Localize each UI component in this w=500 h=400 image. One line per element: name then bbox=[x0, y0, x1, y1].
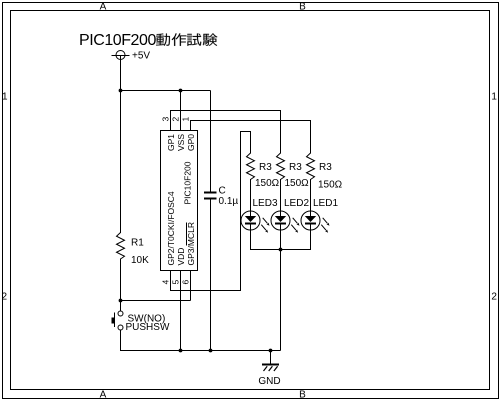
svg-text:GND: GND bbox=[258, 376, 280, 387]
wire pin1 GP0 route bbox=[191, 121, 311, 154]
wire capacitor bottom drop bbox=[210, 200, 212, 352]
svg-text:5: 5 bbox=[171, 280, 181, 285]
node junction GND/rail bbox=[269, 349, 273, 353]
wire R3-3 to LED1 bbox=[310, 179, 312, 212]
node junction VDD/rail bbox=[179, 349, 183, 353]
wire capacitor top drop bbox=[210, 91, 212, 193]
svg-text:6: 6 bbox=[181, 280, 191, 285]
svg-text:10K: 10K bbox=[131, 255, 149, 266]
wire LED common rail bbox=[251, 249, 311, 251]
resistor R1 bbox=[117, 233, 125, 260]
svg-text:2: 2 bbox=[2, 292, 8, 303]
svg-text:PIC10F200: PIC10F200 bbox=[79, 32, 156, 49]
IC U1 PIC10F200 body bbox=[161, 131, 198, 271]
wire LED3 cathode drop bbox=[250, 230, 252, 250]
LED3 diode bbox=[241, 211, 270, 233]
svg-text:A: A bbox=[100, 390, 107, 400]
wire LED1 cathode drop bbox=[310, 230, 312, 250]
svg-text:B: B bbox=[299, 390, 306, 400]
node junction LED rail bbox=[279, 248, 283, 252]
wire pin3 GP1 route bbox=[171, 111, 281, 154]
wire switch bottom bbox=[120, 330, 122, 351]
svg-text:150Ω: 150Ω bbox=[318, 180, 343, 191]
svg-text:LED2: LED2 bbox=[284, 198, 309, 209]
svg-text:R3: R3 bbox=[319, 162, 332, 173]
wire GP3 branch vertical to pin6 bbox=[190, 271, 192, 301]
wire pin4 GP2 route bbox=[171, 132, 251, 291]
svg-text:GP0: GP0 bbox=[186, 134, 196, 151]
ground GND symbol bbox=[262, 351, 279, 372]
svg-text:GP3/MCLR: GP3/MCLR bbox=[186, 222, 196, 265]
power +5V symbol bbox=[112, 51, 130, 61]
svg-text:A: A bbox=[100, 2, 107, 13]
wire +5V horizontal rail bbox=[121, 90, 211, 92]
wire rail up to LED rail bbox=[280, 250, 282, 351]
MCLR overline bbox=[186, 223, 188, 246]
resistor R3 (LED2) bbox=[277, 153, 285, 180]
wire pin2 drop bbox=[180, 91, 182, 132]
svg-text:B: B bbox=[299, 2, 306, 13]
svg-text:R1: R1 bbox=[131, 238, 144, 249]
node junction +5V/R1 bbox=[119, 89, 123, 93]
wire pin5 VDD drop bbox=[180, 271, 182, 352]
svg-text:+5V: +5V bbox=[132, 51, 150, 62]
wire ground rail bottom bbox=[121, 350, 281, 352]
svg-text:VDD: VDD bbox=[176, 248, 186, 266]
svg-text:150Ω: 150Ω bbox=[285, 178, 310, 189]
wire R1 bottom to switch bbox=[120, 259, 122, 312]
svg-text:150Ω: 150Ω bbox=[255, 178, 280, 189]
svg-text:R3: R3 bbox=[259, 162, 272, 173]
node junction R1/GP3 branch bbox=[119, 299, 123, 303]
svg-text:PIC10F200: PIC10F200 bbox=[183, 161, 193, 204]
svg-text:GP1: GP1 bbox=[166, 134, 176, 151]
svg-text:GP2/T0CKI/FOSC4: GP2/T0CKI/FOSC4 bbox=[166, 191, 176, 265]
svg-text:3: 3 bbox=[161, 117, 171, 122]
LED2 diode bbox=[271, 211, 300, 233]
svg-text:VSS: VSS bbox=[176, 134, 186, 151]
svg-text:C: C bbox=[219, 186, 226, 197]
svg-text:2: 2 bbox=[171, 117, 181, 122]
capacitor C1 bbox=[204, 193, 217, 199]
wire +5V stub down to rail bbox=[120, 60, 122, 92]
svg-text:1: 1 bbox=[181, 117, 191, 122]
LED1 diode bbox=[301, 211, 330, 233]
svg-text:1: 1 bbox=[2, 92, 8, 103]
wire R3-2 to LED2 bbox=[280, 179, 282, 212]
title kanji 動作試験 bbox=[156, 33, 217, 45]
wire R3-1 to LED3 bbox=[250, 179, 252, 212]
svg-text:2: 2 bbox=[491, 292, 497, 303]
svg-text:4: 4 bbox=[161, 280, 171, 285]
resistor R3 (LED3) bbox=[247, 153, 255, 180]
node junction +5V/VSS pin2 bbox=[179, 89, 183, 93]
wire R1 column top bbox=[120, 91, 122, 234]
resistor R3 (LED1) bbox=[307, 153, 315, 180]
wire LED2 cathode drop bbox=[280, 230, 282, 250]
svg-text:LED3: LED3 bbox=[253, 198, 278, 209]
svg-text:0.1µ: 0.1µ bbox=[219, 196, 239, 207]
svg-text:PUSHSW: PUSHSW bbox=[126, 322, 170, 333]
switch SW(NO) PUSHSW bbox=[112, 311, 124, 330]
node junction cap/rail bbox=[209, 349, 213, 353]
svg-text:1: 1 bbox=[491, 92, 497, 103]
svg-text:LED1: LED1 bbox=[313, 198, 338, 209]
wire GP3 branch horizontal bbox=[121, 300, 191, 302]
svg-text:R3: R3 bbox=[289, 162, 302, 173]
